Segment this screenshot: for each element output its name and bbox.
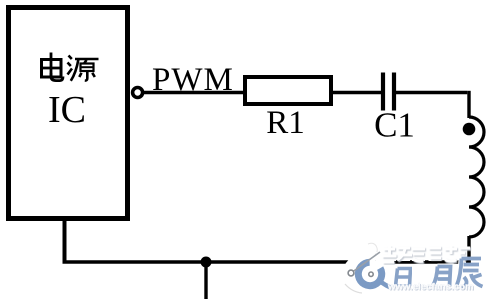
watermark char 月 bbox=[433, 267, 451, 287]
polarity dot bbox=[463, 123, 476, 136]
watermark logo small circles bbox=[348, 270, 354, 276]
watermark url www.elecfans.com bbox=[387, 282, 475, 294]
wire from IC bottom bbox=[63, 219, 67, 262]
inductor L1 coil bbox=[469, 117, 484, 237]
wire R1 to C1 bbox=[333, 91, 381, 94]
label 电 (drawn glyph) bbox=[42, 53, 64, 81]
watermark text 电子发烧友 white backing bbox=[384, 246, 466, 261]
watermark char 日 bbox=[396, 269, 411, 287]
ground stub wire bbox=[204, 262, 207, 299]
wire terminal to R1 bbox=[144, 91, 245, 94]
bottom wire bbox=[63, 260, 471, 264]
power IC box U1 bbox=[9, 8, 128, 219]
svg-text:IC: IC bbox=[48, 89, 86, 131]
svg-text:R1: R1 bbox=[266, 105, 305, 141]
svg-text:www.elecfans.com: www.elecfans.com bbox=[387, 282, 474, 293]
watermark logo white blob bbox=[343, 242, 391, 293]
svg-text:C1: C1 bbox=[374, 106, 415, 145]
watermark logo orbit line bbox=[351, 252, 380, 273]
junction dot bbox=[201, 257, 212, 268]
watermark logo blue swirl bbox=[355, 259, 385, 289]
capacitor C1 bbox=[383, 73, 394, 111]
watermark swirl leg bbox=[381, 282, 392, 289]
wire corner down to coil bbox=[467, 91, 470, 118]
watermark text 电子发烧友 (white outline chars) bbox=[384, 247, 472, 263]
wire C1 to top-right corner bbox=[396, 91, 467, 94]
watermark char 辰 bbox=[457, 259, 483, 288]
label 源 (drawn glyph) bbox=[68, 56, 99, 81]
wire below coil bbox=[467, 236, 470, 264]
terminal circle (PWM output pin) bbox=[133, 88, 143, 98]
resistor R1 bbox=[245, 77, 331, 104]
